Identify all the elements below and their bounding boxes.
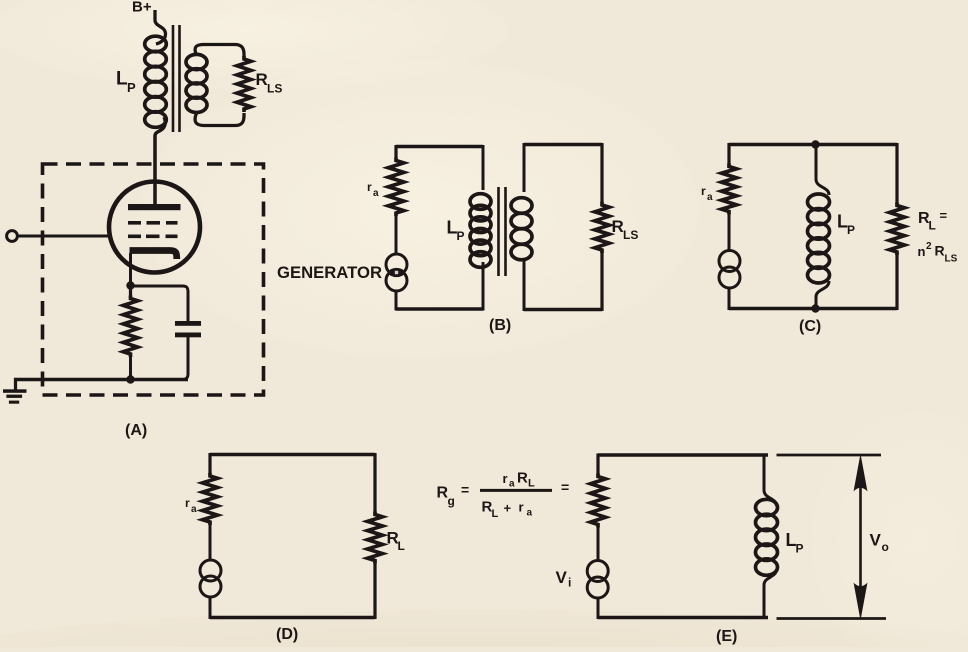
svg-text:V: V [556, 568, 568, 587]
wire right lower (D) [373, 562, 376, 620]
wire Vo bottom reference [777, 617, 887, 620]
svg-text:L: L [528, 478, 535, 490]
current source generator (B) [386, 254, 407, 275]
svg-text:GENERATOR: GENERATOR [277, 264, 382, 282]
svg-text:(C): (C) [799, 318, 821, 335]
tube grid dashes [128, 221, 141, 225]
wire left upper (E) [596, 454, 599, 476]
svg-text:a: a [373, 188, 379, 199]
wire top (D) [210, 453, 375, 456]
wire top (C) [729, 143, 897, 146]
svg-text:P: P [457, 229, 465, 243]
ground bus wire [14, 378, 188, 381]
wire right side lower (B) [600, 251, 603, 311]
svg-text:P: P [127, 80, 136, 95]
inductor LP (E) [764, 454, 777, 506]
svg-text:P: P [796, 542, 804, 556]
wire right upper (D) [373, 453, 376, 513]
svg-text:r: r [185, 496, 190, 510]
wire bottom right loop (B) [524, 308, 602, 311]
dashed enclosure box (A) [43, 164, 264, 395]
wire left side (B) [394, 145, 397, 158]
svg-text:r: r [701, 184, 706, 198]
svg-text:P: P [847, 223, 855, 237]
capacitor Ck [175, 321, 201, 326]
svg-text:a: a [707, 192, 713, 203]
wire source to bottom (D) [209, 597, 212, 620]
wire source to bottom (C) [728, 288, 731, 311]
transformer core (A) [172, 25, 175, 132]
svg-text:i: i [568, 576, 571, 590]
svg-text:=: = [940, 208, 948, 223]
wire right side upper (B) [600, 143, 603, 203]
svg-text:a: a [509, 479, 515, 490]
resistor ra (D) [203, 473, 218, 525]
svg-text:LS: LS [945, 254, 958, 265]
svg-text:L: L [492, 508, 499, 520]
resistor RLS (B) [595, 202, 609, 253]
ground [14, 378, 17, 390]
wire ra to generator (B) [395, 214, 398, 255]
inductor LP primary (A) [145, 36, 167, 52]
inductor secondary (A) [186, 54, 207, 69]
svg-text:R: R [517, 470, 528, 487]
cathode lead wire [129, 253, 132, 286]
wire bottom (D) [210, 616, 375, 619]
current source Vi (E) [587, 561, 608, 582]
svg-text:(A): (A) [125, 422, 147, 439]
wire source to bottom (E) [597, 597, 600, 619]
svg-text:R: R [935, 243, 945, 259]
svg-text:(E): (E) [716, 628, 737, 645]
resistor RL (D) [368, 512, 383, 564]
svg-text:+: + [504, 501, 512, 516]
wire generator to bottom (B) [395, 291, 398, 311]
inductor LP primary (B) [482, 145, 485, 190]
svg-text:V: V [870, 531, 882, 550]
wire Vo top reference [777, 454, 882, 457]
resistor cathode Rk [129, 285, 132, 297]
svg-text:(D): (D) [276, 626, 298, 643]
transformer core (B) [497, 187, 500, 276]
resistor RL (C) [890, 203, 905, 256]
svg-text:r: r [503, 471, 508, 486]
vacuum tube envelope V1 [109, 182, 200, 273]
wire top right loop (B) [524, 143, 602, 146]
wire B+ lead [155, 10, 166, 44]
inductor secondary (B) [523, 143, 526, 192]
svg-text:r: r [367, 180, 372, 194]
grid lead wire [17, 235, 110, 238]
tube plate [128, 204, 181, 210]
svg-text:n: n [918, 244, 926, 259]
resistor ra (E) [591, 474, 606, 528]
arrow Vo double-headed [859, 465, 862, 610]
svg-text:=: = [461, 482, 469, 498]
wire bottom left loop (B) [396, 307, 483, 310]
resistor ra (B) [388, 158, 404, 217]
node cathode junction [126, 281, 134, 289]
capacitor lower lead [175, 337, 188, 380]
svg-text:LS: LS [267, 82, 282, 96]
wire left upper (D) [208, 453, 211, 474]
wire ra to source (C) [728, 213, 731, 251]
svg-text:=: = [561, 479, 569, 495]
wire to bypass capacitor [131, 286, 189, 322]
tube cathode [130, 251, 177, 260]
svg-text:L: L [398, 539, 405, 553]
wire top left loop (B) [396, 145, 483, 148]
node bottom junction (C) [811, 304, 819, 312]
current source (C) [719, 251, 740, 272]
resistor ra (C) [722, 164, 737, 215]
current source (D) [200, 560, 221, 581]
svg-text:LS: LS [623, 228, 638, 242]
svg-text:r: r [519, 500, 524, 515]
svg-text:a: a [191, 504, 197, 515]
node top junction (C) [811, 140, 819, 148]
svg-text:g: g [448, 494, 455, 508]
svg-text:(B): (B) [489, 317, 511, 334]
wire bottom (E) [598, 616, 768, 619]
wire right side lower (C) [895, 253, 898, 310]
svg-text:R: R [256, 70, 268, 89]
resistor RLS (A) [237, 56, 251, 112]
input terminal [7, 231, 18, 242]
wire right side upper (C) [895, 143, 898, 204]
svg-text:a: a [527, 508, 533, 519]
svg-text:R: R [612, 217, 624, 236]
wire left side (C) [727, 143, 730, 165]
svg-text:B+: B+ [132, 0, 152, 16]
svg-text:o: o [882, 540, 889, 554]
wire resistor to source (E) [597, 525, 600, 561]
node ground junction [126, 375, 134, 383]
wire ra to source (D) [209, 523, 212, 561]
wire top (E) [598, 453, 768, 456]
wire bottom (C) [729, 307, 897, 310]
inductor LP (C) [816, 144, 829, 195]
svg-text:L: L [929, 219, 936, 233]
wire Rk to ground bus [129, 356, 132, 380]
svg-text:2: 2 [926, 241, 932, 252]
